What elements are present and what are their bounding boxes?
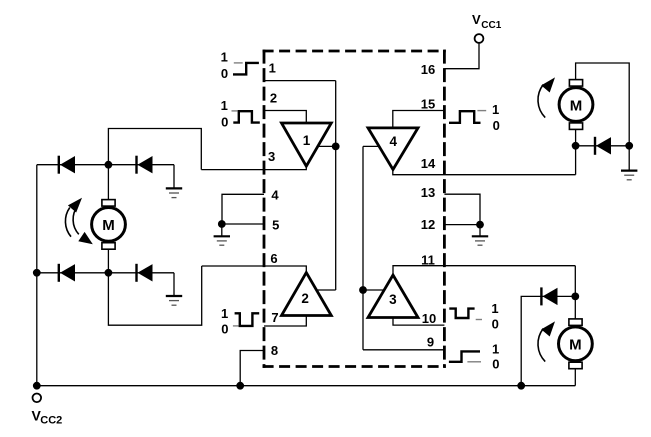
- wire amp1 enable: [319, 145, 336, 147]
- svg-text:5: 5: [272, 218, 279, 233]
- svg-text:12: 12: [421, 217, 435, 232]
- wire amp4 enable: [363, 145, 379, 147]
- wire pin12: [444, 224, 480, 226]
- svg-text:3: 3: [389, 292, 397, 307]
- svg-text:7: 7: [271, 310, 278, 325]
- svg-text:1: 1: [491, 301, 498, 316]
- svg-text:M: M: [102, 217, 115, 234]
- svg-text:11: 11: [421, 253, 435, 268]
- left H-bridge top rail: [37, 164, 174, 166]
- svg-text:6: 6: [270, 251, 277, 266]
- waveform input pin7: [233, 325, 239, 327]
- wire amp3 output to pin11: [393, 266, 575, 275]
- node dot motor3 diode: [571, 293, 579, 301]
- wire pin13: [444, 194, 480, 224]
- wire pin4: [222, 194, 264, 224]
- ground bottom-right of bridge: [173, 273, 175, 296]
- svg-text:M: M: [569, 337, 582, 354]
- wire amp1 output to pin3: [201, 166, 306, 169]
- ground top-right of bridge: [173, 165, 175, 188]
- svg-text:10: 10: [422, 311, 436, 326]
- wire pin8 to VCC2 rail: [240, 351, 264, 386]
- svg-text:2: 2: [301, 291, 309, 306]
- node dot diode branch rail: [517, 382, 525, 390]
- svg-text:0: 0: [221, 66, 228, 81]
- svg-text:4: 4: [271, 188, 279, 203]
- motor M1: [92, 208, 126, 242]
- wire pin9 to 3,4EN line: [363, 349, 444, 351]
- motor M2: [559, 88, 593, 122]
- wire motor3 bottom lead: [574, 369, 576, 386]
- svg-text:0: 0: [492, 316, 499, 331]
- wire motor2 bottom lead: [575, 129, 577, 174]
- op-amp U1:3: [368, 275, 418, 318]
- waveform input pin9: [449, 351, 480, 361]
- wire pin1 to 1,2EN line: [264, 80, 336, 82]
- wire amp4 output to pin14: [393, 170, 576, 175]
- svg-text:V: V: [472, 12, 481, 27]
- op-amp U1:1: [282, 123, 332, 166]
- wire motor2 top loop: [576, 63, 630, 170]
- svg-text:2: 2: [270, 91, 277, 106]
- wire pin15 to amp4 input: [393, 111, 445, 128]
- ground motor2: [621, 170, 637, 172]
- VCC1 terminal: [475, 34, 484, 43]
- wire 3,4EN vertical: [362, 146, 364, 349]
- svg-text:3: 3: [268, 149, 275, 164]
- svg-text:CC2: CC2: [40, 415, 62, 427]
- motor M1 rotation arrow up: [65, 208, 71, 237]
- motor M3: [559, 327, 593, 361]
- svg-text:15: 15: [421, 97, 435, 112]
- node dot pin5 ground: [218, 220, 226, 228]
- waveform input pin15: [449, 111, 481, 123]
- wire pin3 to motor bridge top: [108, 129, 201, 170]
- node dot pin8 rail: [236, 382, 244, 390]
- node dot bridge bottom: [105, 269, 113, 277]
- diode D5: [594, 137, 596, 155]
- svg-text:0: 0: [221, 115, 228, 130]
- node dot D5 cathode: [625, 142, 633, 150]
- wire diode D6 branch: [521, 296, 575, 385]
- svg-text:M: M: [570, 97, 583, 114]
- svg-text:0: 0: [492, 356, 499, 371]
- wire 1,2EN vertical: [335, 81, 337, 290]
- svg-text:0: 0: [493, 118, 500, 133]
- wire pin2 to amp1 input: [264, 111, 306, 124]
- wire pin10 to amp3 input: [393, 318, 444, 326]
- wire amp3 enable: [363, 289, 384, 291]
- IC dashed box U1: [263, 50, 446, 368]
- motor M3 terminals: [569, 319, 582, 326]
- node dot bridge top: [105, 161, 113, 169]
- wire pin6 to amp2 output: [202, 266, 307, 273]
- diode D3 bottom-left: [58, 264, 60, 282]
- svg-text:1: 1: [492, 102, 499, 117]
- wire pin5: [222, 223, 264, 225]
- waveform input pin10: [449, 309, 474, 318]
- svg-text:1: 1: [269, 61, 276, 76]
- svg-text:9: 9: [427, 335, 434, 350]
- wire motor1 bottom lead: [107, 249, 109, 273]
- node dot motor2: [572, 142, 580, 150]
- svg-text:14: 14: [421, 156, 436, 171]
- waveform input pin1: [234, 62, 243, 64]
- node dot amp1 enable: [332, 143, 340, 151]
- diode D6: [540, 287, 542, 305]
- motor M1 terminals: [102, 200, 115, 207]
- node dot left rail bottom row: [33, 269, 41, 277]
- svg-text:4: 4: [389, 134, 397, 149]
- node dot amp3 enable: [359, 286, 367, 294]
- svg-text:1: 1: [221, 306, 228, 321]
- wire pin7 to amp2 input: [264, 316, 306, 327]
- left vertical rail VCC2: [36, 165, 38, 386]
- wire motor3 top lead: [574, 266, 576, 319]
- svg-text:1: 1: [303, 133, 311, 148]
- motor M3 rotation arrow: [538, 329, 545, 362]
- wire amp2 enable: [317, 289, 336, 291]
- ground pin12: [479, 225, 481, 236]
- VCC2 rail: [37, 385, 576, 387]
- diode D2 top-right: [135, 156, 137, 174]
- svg-text:8: 8: [271, 343, 278, 358]
- diode D1 top-left: [58, 156, 60, 174]
- wire pin16 to VCC1: [444, 43, 479, 69]
- svg-text:1: 1: [221, 50, 228, 65]
- svg-text:CC1: CC1: [481, 20, 501, 31]
- diode D4 bottom-right: [135, 264, 137, 282]
- op-amp U1:2: [282, 273, 332, 316]
- wire diode D5 row: [576, 145, 630, 147]
- ground pin5: [221, 224, 223, 236]
- node dot VCC2: [33, 382, 41, 390]
- waveform input pin2: [232, 110, 238, 112]
- motor M2 rotation arrow: [538, 85, 545, 118]
- VCC2 terminal: [33, 394, 42, 403]
- op-amp U1:4: [368, 128, 418, 170]
- svg-text:0: 0: [221, 322, 228, 337]
- wire pin6 to motor bridge bottom: [108, 266, 201, 325]
- left H-bridge bottom rail: [37, 272, 174, 274]
- wire motor1 top lead: [107, 165, 109, 200]
- svg-text:1: 1: [221, 98, 228, 113]
- svg-text:16: 16: [421, 62, 435, 77]
- svg-text:13: 13: [421, 185, 435, 200]
- svg-text:1: 1: [492, 342, 499, 357]
- node dot pin12 ground: [476, 221, 484, 229]
- motor M2 terminals: [569, 80, 582, 87]
- motor M1 rotation arrow down: [73, 206, 79, 235]
